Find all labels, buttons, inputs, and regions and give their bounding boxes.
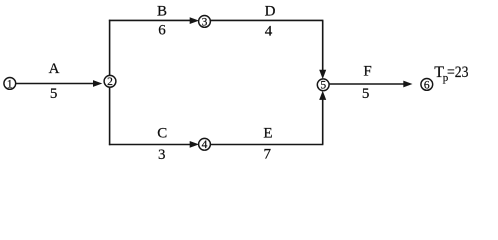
node 5 <box>317 79 329 92</box>
svg-text:=23: =23 <box>447 64 469 81</box>
wire 2 down to bottom rail <box>109 87 111 145</box>
svg-text:4: 4 <box>202 139 208 151</box>
node 3 <box>199 16 211 29</box>
node 1 <box>4 78 16 91</box>
wire B (top rail to 3) <box>109 17 199 24</box>
node 4 <box>199 138 211 151</box>
svg-text:2: 2 <box>107 76 113 88</box>
wire F (5 to 6) <box>329 81 412 88</box>
wire A (1 to 2) <box>16 80 102 87</box>
svg-text:3: 3 <box>158 147 166 163</box>
svg-text:C: C <box>157 126 167 142</box>
svg-text:D: D <box>265 4 276 20</box>
svg-text:6: 6 <box>158 23 166 39</box>
node 6 <box>421 79 433 92</box>
svg-text:6: 6 <box>424 79 430 91</box>
svg-text:3: 3 <box>202 16 208 28</box>
wire E (4 to corner) <box>210 144 323 146</box>
svg-text:F: F <box>363 63 371 79</box>
svg-text:7: 7 <box>264 147 272 163</box>
wire D (3 to corner) <box>210 19 323 21</box>
wire D down into 5 <box>319 20 326 79</box>
wire 2 up to top rail <box>109 20 111 76</box>
svg-text:B: B <box>157 4 167 20</box>
svg-text:4: 4 <box>265 23 273 39</box>
wire E up into 5 <box>319 91 326 145</box>
label Tp=23 <box>434 64 468 84</box>
svg-text:5: 5 <box>362 86 370 102</box>
svg-text:A: A <box>49 61 60 77</box>
svg-text:5: 5 <box>320 80 326 92</box>
node 2 <box>104 75 116 88</box>
svg-text:5: 5 <box>50 86 58 102</box>
svg-text:1: 1 <box>7 78 13 90</box>
wire C (bottom rail to 4) <box>109 141 199 148</box>
svg-text:E: E <box>263 126 272 142</box>
